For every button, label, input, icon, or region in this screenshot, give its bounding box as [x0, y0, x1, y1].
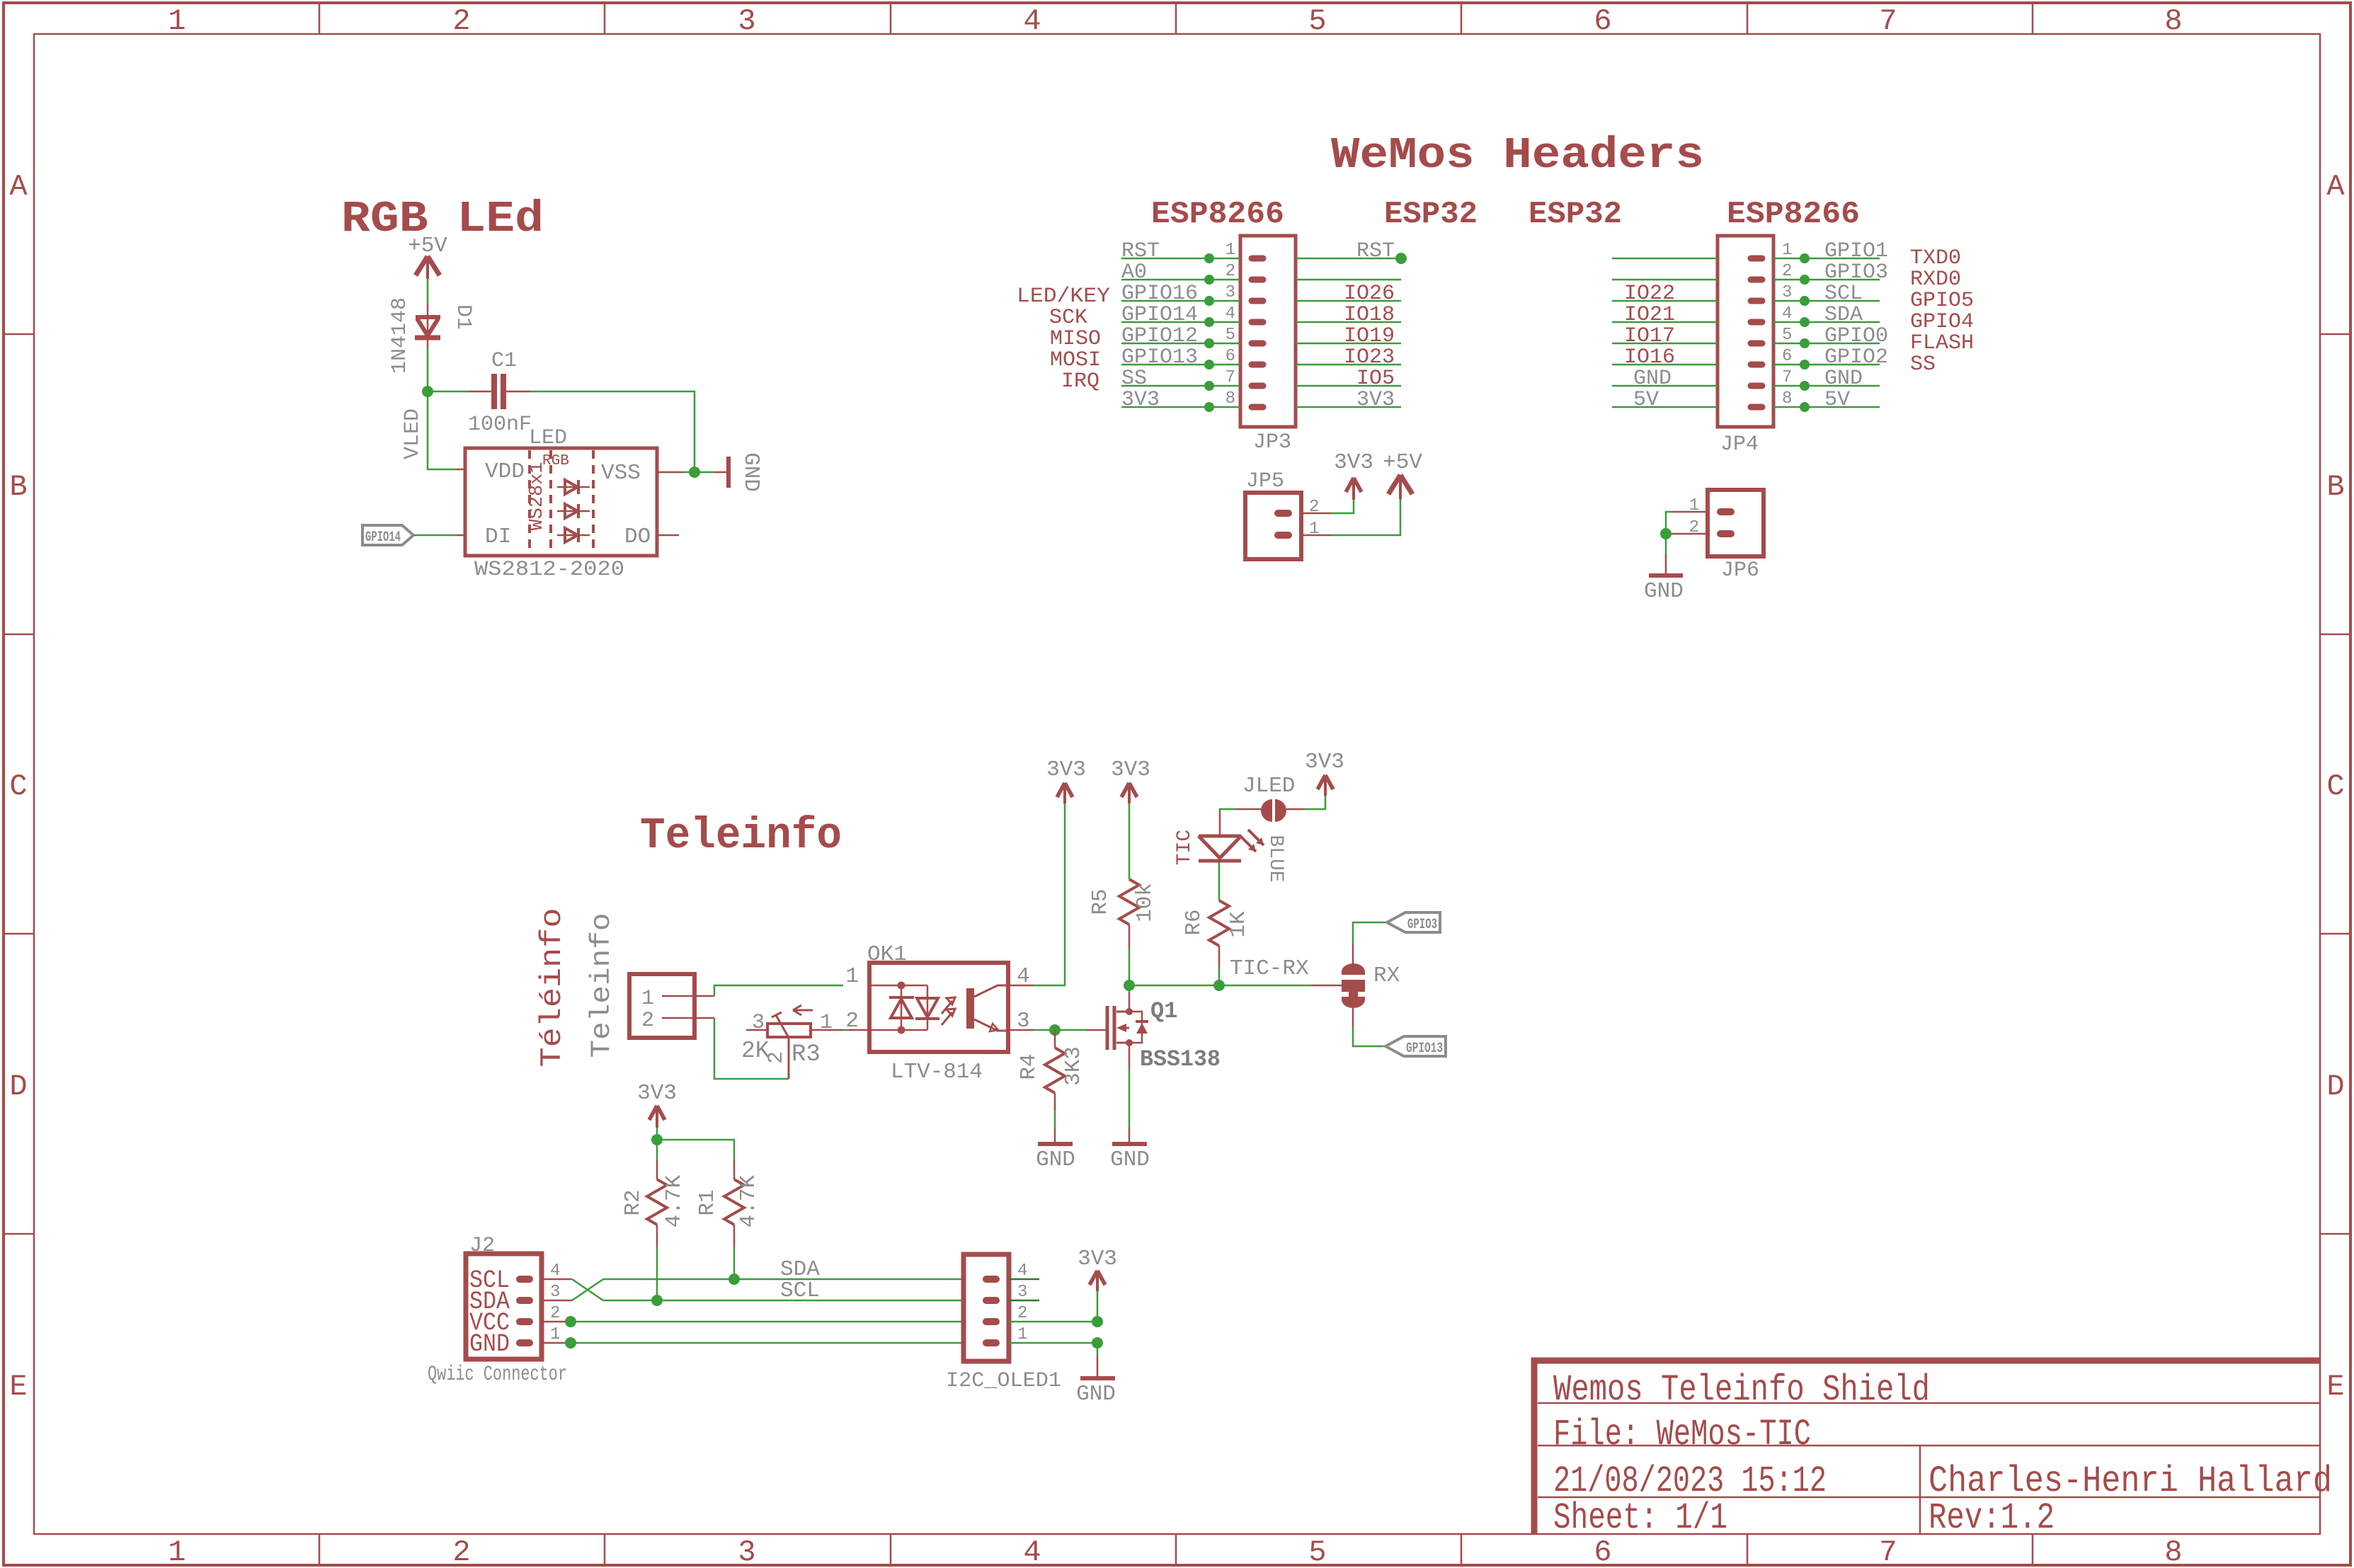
svg-text:LED: LED [529, 426, 567, 450]
OK1 interior dots [898, 982, 905, 990]
svg-text:3V3: 3V3 [1046, 757, 1086, 782]
svg-text:RX: RX [1373, 963, 1400, 988]
svg-text:GND: GND [738, 452, 763, 492]
svg-text:GPIO13: GPIO13 [1121, 345, 1198, 370]
svg-text:WeMos Headers: WeMos Headers [1331, 130, 1704, 181]
column tick marks bottom [319, 1534, 2033, 1565]
tag GPIO14 [362, 525, 413, 546]
supply 3V3 (pullups) [649, 1106, 665, 1128]
supply +5V symbol [416, 256, 440, 279]
svg-text:GPIO2: GPIO2 [1824, 345, 1888, 370]
svg-text:3K3: 3K3 [1061, 1046, 1086, 1086]
transistor Q1 BSS138 [1107, 1006, 1129, 1050]
wire RX to GPIO13 [1352, 1008, 1354, 1027]
connector I2C_OLED1 box [964, 1254, 1009, 1361]
svg-text:3V3: 3V3 [1111, 757, 1150, 782]
svg-text:BSS138: BSS138 [1140, 1046, 1221, 1072]
svg-text:1: 1 [820, 1011, 833, 1035]
pin wire VSS [657, 471, 683, 474]
junction VCC-3V3 [1092, 1316, 1103, 1327]
resistor R2 [647, 1160, 667, 1247]
junction VSS node [689, 467, 700, 478]
svg-text:RXD0: RXD0 [1910, 268, 1961, 292]
svg-text:1: 1 [168, 4, 185, 38]
svg-text:2: 2 [1225, 262, 1235, 281]
internal diode blue [557, 528, 590, 542]
internal diode red [557, 480, 590, 494]
svg-text:JLED: JLED [1242, 774, 1295, 799]
svg-text:GPIO5: GPIO5 [1910, 289, 1974, 313]
svg-text:Q1: Q1 [1150, 998, 1177, 1024]
JP6 pin stubs [1720, 512, 1731, 534]
svg-text:TIC: TIC [1174, 830, 1196, 865]
svg-text:R2: R2 [621, 1189, 646, 1215]
wire R3 to OK1 pin2 [842, 1029, 849, 1031]
svg-text:GND: GND [1824, 367, 1863, 391]
JP5 pin2 wire to 3V3 [1301, 513, 1331, 515]
svg-text:TXD0: TXD0 [1910, 246, 1961, 270]
svg-text:3V3: 3V3 [1334, 450, 1373, 475]
svg-text:OK1: OK1 [867, 942, 907, 967]
capacitor C1 [469, 374, 530, 409]
svg-text:A0: A0 [1121, 261, 1147, 285]
JP3 left function labels [1017, 285, 1110, 394]
svg-text:JP4: JP4 [1720, 433, 1759, 457]
svg-text:GPIO0: GPIO0 [1824, 324, 1888, 348]
svg-text:1: 1 [168, 1535, 185, 1568]
Q1 body diode [1129, 1012, 1142, 1043]
svg-text:JP3: JP3 [1253, 430, 1291, 454]
svg-text:7: 7 [1879, 4, 1897, 38]
svg-text:8: 8 [2164, 1535, 2182, 1568]
supply 3V3 (I2C) [1090, 1271, 1105, 1291]
Teleinfo pin lines [662, 996, 714, 1018]
wire +5V to D1 [427, 279, 429, 304]
ground GND (I2C) [1080, 1356, 1115, 1378]
wire to Q1 gate [1086, 1029, 1106, 1031]
wire VCC to 3V3 [1009, 1321, 1097, 1323]
svg-text:Téléinfo: Téléinfo [535, 908, 569, 1068]
resistor R6 [1209, 900, 1229, 967]
optocoupler OK1 box [869, 963, 1008, 1052]
svg-text:4: 4 [1782, 304, 1792, 324]
dashed dividers inside LED [530, 450, 593, 554]
svg-text:1: 1 [550, 1325, 560, 1344]
svg-text:6: 6 [1782, 347, 1792, 366]
junction pullup node [651, 1134, 663, 1145]
svg-text:GPIO14: GPIO14 [365, 530, 401, 546]
JP4 pin numbers [1782, 241, 1792, 408]
svg-text:3V3: 3V3 [637, 1081, 677, 1106]
jumper RX [1342, 963, 1365, 975]
internal diode green [557, 504, 590, 518]
svg-text:4.7K: 4.7K [736, 1174, 761, 1227]
svg-text:3: 3 [1225, 283, 1235, 302]
svg-text:D1: D1 [451, 304, 475, 330]
svg-text:ESP32: ESP32 [1384, 197, 1478, 232]
svg-text:5: 5 [1308, 4, 1326, 38]
svg-text:R6: R6 [1182, 909, 1206, 935]
svg-text:RST: RST [1356, 239, 1395, 263]
supply 3V3 (R5) [1121, 783, 1137, 803]
svg-text:B: B [2326, 470, 2344, 504]
wire Teleinfo pin2 to R3 wiper [714, 1018, 789, 1079]
svg-text:1: 1 [1017, 1325, 1027, 1344]
resistor R5 [1119, 879, 1139, 949]
connector JP3 [1240, 236, 1296, 427]
junction TIC-RX at R5 [1124, 980, 1135, 991]
tag GPIO3 [1387, 912, 1440, 932]
JP3 left pin dots [1204, 253, 1214, 412]
svg-text:6: 6 [1594, 4, 1611, 38]
svg-text:A: A [2326, 170, 2345, 204]
pin wire DI [457, 534, 466, 537]
svg-text:5: 5 [1225, 326, 1235, 345]
svg-text:Wemos Teleinfo Shield: Wemos Teleinfo Shield [1553, 1369, 1930, 1411]
LED WS2812 box [465, 448, 657, 556]
svg-text:IO17: IO17 [1624, 324, 1675, 348]
pin wire VDD [457, 469, 466, 471]
resistor R4 [1045, 1030, 1065, 1111]
wire to GND [1665, 534, 1667, 554]
svg-text:Qwiic Connector: Qwiic Connector [428, 1363, 567, 1387]
svg-text:Sheet: 1/1: Sheet: 1/1 [1553, 1497, 1727, 1539]
svg-text:SCL: SCL [780, 1278, 820, 1303]
JP4 right net labels [1824, 239, 1888, 412]
svg-text:2: 2 [452, 4, 470, 38]
svg-text:D: D [9, 1070, 27, 1104]
svg-text:SCL: SCL [1824, 282, 1863, 306]
svg-text:VDD: VDD [485, 459, 525, 484]
svg-text:LED/KEY: LED/KEY [1017, 285, 1110, 309]
svg-text:2: 2 [1017, 1304, 1027, 1323]
svg-text:GND: GND [1036, 1148, 1075, 1172]
svg-text:4: 4 [1023, 1535, 1041, 1568]
wire SDA [603, 1278, 964, 1281]
wire GPIO14 to DI [413, 534, 457, 537]
svg-text:1: 1 [1225, 241, 1235, 260]
wire TIC-RX [1129, 985, 1311, 987]
wire up to 3V3 [1097, 1291, 1099, 1322]
Q1 drain wire [1129, 992, 1131, 1012]
svg-text:2: 2 [641, 1009, 654, 1033]
JP5 pin numbers [1309, 498, 1319, 539]
wire 3V3 to junction [656, 1128, 658, 1140]
svg-text:IO16: IO16 [1624, 345, 1675, 370]
svg-text:GND: GND [1076, 1382, 1116, 1407]
svg-text:5V: 5V [1824, 388, 1850, 412]
JP3 left net labels [1121, 239, 1198, 412]
OK1 diode down [915, 998, 939, 1019]
JP3 pin stubs [1252, 258, 1263, 407]
JP5 pin stubs [1278, 513, 1289, 535]
svg-text:BLUE: BLUE [1264, 835, 1286, 882]
R3 pin labels [752, 1011, 833, 1064]
connector JP5 [1245, 493, 1301, 559]
svg-text:IO26: IO26 [1344, 282, 1395, 306]
svg-text:IO19: IO19 [1344, 324, 1395, 348]
svg-text:GPIO3: GPIO3 [1824, 261, 1888, 285]
svg-text:R5: R5 [1088, 888, 1113, 915]
svg-text:5V: 5V [1633, 388, 1659, 412]
wire R2 to SCL [656, 1247, 658, 1300]
jumper JLED [1261, 799, 1272, 822]
wire R4 to GND [1054, 1111, 1056, 1128]
svg-text:4: 4 [1023, 4, 1041, 38]
I2C_OLED1 right stub wires [1009, 1279, 1039, 1300]
ground GND (rotated) [714, 457, 729, 488]
junction R2-SCL [651, 1295, 663, 1306]
Q1 gate arrow head [1116, 1024, 1126, 1032]
svg-text:6: 6 [1594, 1535, 1611, 1568]
wire VCC [571, 1321, 964, 1323]
node RST dot [1395, 253, 1407, 264]
wire junction to R2 [656, 1140, 658, 1160]
JP3 right wires [1296, 258, 1401, 407]
svg-text:I2C_OLED1: I2C_OLED1 [946, 1369, 1061, 1393]
svg-text:7: 7 [1782, 368, 1792, 387]
svg-text:LTV-814: LTV-814 [891, 1060, 983, 1085]
svg-text:2: 2 [452, 1535, 470, 1568]
svg-text:SCK: SCK [1049, 306, 1087, 330]
svg-text:A: A [9, 170, 28, 204]
title block row lines [1538, 1403, 2320, 1534]
LED TIC [1199, 809, 1241, 862]
svg-text:21/08/2023 15:12: 21/08/2023 15:12 [1553, 1460, 1827, 1502]
svg-text:+5V: +5V [408, 234, 447, 258]
wire VLED down to VDD [428, 391, 457, 469]
svg-text:Teleinfo: Teleinfo [586, 913, 617, 1058]
title block thick border [1534, 1361, 2320, 1534]
svg-text:4: 4 [550, 1261, 560, 1281]
connector Teleinfo box [629, 974, 695, 1038]
svg-text:IO22: IO22 [1624, 282, 1675, 306]
svg-text:Teleinfo: Teleinfo [640, 811, 842, 861]
svg-text:D: D [2326, 1070, 2344, 1104]
svg-text:GND: GND [1110, 1148, 1150, 1172]
row tick marks right [2320, 334, 2350, 1234]
JP6 pin wires [1672, 512, 1708, 534]
svg-text:100nF: 100nF [468, 413, 532, 437]
JP4 pin stubs [1751, 258, 1762, 407]
JP4 right wires [1773, 258, 1880, 407]
svg-text:GND: GND [1633, 367, 1672, 391]
wire Teleinfo pin1 to OK1 [714, 985, 843, 996]
svg-text:IO21: IO21 [1624, 303, 1675, 327]
svg-text:4: 4 [1017, 1261, 1027, 1281]
svg-text:8: 8 [2164, 4, 2182, 38]
I2C_OLED1 pin numbers [1017, 1261, 1027, 1344]
I2C_OLED1 pin stubs [986, 1279, 996, 1343]
connector J2 box [466, 1254, 542, 1359]
junction R1-SDA [729, 1274, 740, 1285]
svg-text:3: 3 [738, 1535, 755, 1568]
svg-text:3: 3 [1017, 1283, 1027, 1302]
svg-text:ESP8266: ESP8266 [1727, 197, 1860, 232]
supply +5V (JP5) [1388, 475, 1412, 499]
wire D1 to VLED junction [427, 338, 429, 348]
OK1 diode up [889, 997, 914, 1018]
junction gate node [1049, 1024, 1061, 1036]
wire GND [571, 1342, 964, 1344]
pin wire DO (unconnected) [657, 534, 679, 537]
svg-text:SS: SS [1121, 367, 1147, 391]
svg-text:Charles-Henri Hallard: Charles-Henri Hallard [1929, 1460, 2332, 1502]
JP6 pin numbers [1689, 496, 1699, 537]
svg-text:Rev:1.2: Rev:1.2 [1929, 1497, 2055, 1539]
wire junction to R1 [657, 1140, 734, 1160]
svg-text:ESP8266: ESP8266 [1151, 197, 1284, 232]
svg-text:C: C [2326, 769, 2344, 803]
junction JP6 gnd node [1660, 528, 1672, 539]
junction VCC at J2 [565, 1316, 576, 1327]
svg-text:GPIO12: GPIO12 [1121, 324, 1198, 348]
svg-text:JP6: JP6 [1721, 559, 1759, 583]
svg-text:10k: 10k [1133, 883, 1158, 922]
connector JP4 [1718, 236, 1773, 427]
svg-text:C: C [9, 769, 27, 803]
svg-text:GPIO13: GPIO13 [1406, 1041, 1443, 1057]
svg-text:MOSI: MOSI [1050, 348, 1101, 372]
svg-text:4.7K: 4.7K [662, 1174, 687, 1227]
wire TIC to JLED [1219, 808, 1235, 811]
svg-text:File: WeMos-TIC: File: WeMos-TIC [1553, 1414, 1811, 1455]
JP4 left wires [1612, 258, 1718, 407]
svg-text:3: 3 [752, 1011, 765, 1035]
svg-text:IRQ: IRQ [1061, 370, 1099, 394]
svg-text:3V3: 3V3 [1305, 750, 1344, 774]
JP3 right net labels [1344, 239, 1395, 412]
wire RX to GPIO3 [1352, 943, 1354, 964]
OK1 pin numbers [845, 964, 1029, 1034]
svg-text:MISO: MISO [1050, 327, 1101, 351]
ground GND (JP6) [1649, 554, 1683, 576]
svg-text:R4: R4 [1017, 1053, 1041, 1080]
JP5 pin1 wire to +5V [1301, 534, 1331, 537]
wire GND to gnd [1009, 1342, 1097, 1344]
supply 3V3 (JLED) [1318, 775, 1333, 796]
wire VSS to GND [683, 471, 714, 474]
svg-text:+5V: +5V [1383, 450, 1422, 475]
svg-text:J2: J2 [469, 1234, 495, 1258]
svg-text:4: 4 [1225, 304, 1235, 324]
svg-text:GPIO4: GPIO4 [1910, 310, 1974, 334]
svg-text:7: 7 [1225, 368, 1235, 387]
svg-text:WS28x1: WS28x1 [527, 462, 548, 530]
svg-text:VSS: VSS [601, 461, 641, 486]
J2 pin numbers [550, 1261, 560, 1344]
supply 3V3 (JP5) [1346, 478, 1361, 500]
svg-text:2: 2 [845, 1009, 859, 1034]
svg-text:GPIO16: GPIO16 [1121, 282, 1198, 306]
svg-text:JP5: JP5 [1246, 469, 1284, 493]
svg-text:1N4148: 1N4148 [388, 297, 412, 374]
supply 3V3 (OK1) [1057, 783, 1073, 803]
svg-text:SS: SS [1910, 353, 1936, 377]
svg-text:B: B [9, 470, 27, 504]
svg-text:1: 1 [1782, 241, 1792, 260]
wire R1 to SDA [733, 1247, 736, 1279]
svg-text:1K: 1K [1226, 911, 1251, 938]
connector JP6 [1708, 490, 1764, 556]
wire down to GND [1097, 1343, 1099, 1356]
svg-text:GND: GND [1644, 579, 1684, 604]
svg-text:6: 6 [1225, 347, 1235, 366]
Teleinfo pin numbers [641, 987, 654, 1033]
resistor R1 [724, 1160, 744, 1247]
wire C1 to VSS corner [530, 391, 695, 472]
JP3 pin numbers [1225, 241, 1235, 408]
J2 pin names [469, 1266, 510, 1358]
svg-text:ESP32: ESP32 [1529, 197, 1622, 232]
JP4 right pin dots [1800, 253, 1810, 412]
svg-text:RST: RST [1121, 239, 1160, 263]
trimmer R3 [746, 1005, 842, 1079]
svg-text:FLASH: FLASH [1910, 331, 1974, 355]
svg-text:1: 1 [641, 987, 654, 1011]
ground GND (R4) [1038, 1128, 1073, 1144]
svg-text:3V3: 3V3 [1078, 1247, 1117, 1271]
OK1 pin4 wire to 3V3 [1008, 985, 1034, 987]
svg-text:3: 3 [738, 4, 755, 38]
svg-text:IO18: IO18 [1344, 303, 1395, 327]
svg-text:GND: GND [469, 1330, 510, 1358]
OK1 light arrows [942, 997, 955, 1025]
svg-text:8: 8 [1782, 389, 1792, 408]
wire TIC-RX to RX jumper [1311, 985, 1342, 987]
Q1 source wire to GND [1129, 1043, 1131, 1069]
diode D1 [415, 317, 440, 338]
svg-text:VLED: VLED [401, 408, 425, 459]
svg-text:2: 2 [550, 1304, 560, 1323]
svg-text:3V3: 3V3 [1356, 388, 1395, 412]
wire junction to C1 [428, 391, 469, 393]
OK1 pin3 wire [1008, 1029, 1034, 1031]
junction GND at J2 [565, 1337, 576, 1349]
svg-text:2: 2 [1782, 262, 1792, 281]
svg-text:TIC-RX: TIC-RX [1230, 956, 1309, 981]
JP3 left wires [1121, 258, 1240, 407]
svg-text:GPIO1: GPIO1 [1824, 239, 1888, 263]
JP4 left net labels [1624, 282, 1675, 412]
crossover SCL/SDA [572, 1279, 603, 1300]
OK1 input pin lines [869, 985, 927, 1030]
svg-text:2K: 2K [741, 1038, 770, 1064]
svg-text:1: 1 [845, 964, 859, 989]
svg-text:5: 5 [1308, 1535, 1326, 1568]
row tick marks left [4, 334, 34, 1234]
J2 pin wires [542, 1279, 572, 1343]
svg-text:IO5: IO5 [1356, 367, 1395, 391]
svg-text:R3: R3 [792, 1041, 821, 1068]
svg-text:SDA: SDA [1824, 303, 1863, 327]
svg-text:GPIO14: GPIO14 [1121, 303, 1198, 327]
svg-text:C1: C1 [491, 349, 517, 373]
svg-text:3: 3 [550, 1283, 560, 1302]
JP4 right function labels [1910, 246, 1974, 377]
svg-text:7: 7 [1879, 1535, 1897, 1568]
svg-text:8: 8 [1225, 389, 1235, 408]
svg-text:DI: DI [485, 525, 511, 549]
svg-text:IO23: IO23 [1344, 345, 1395, 370]
svg-text:3V3: 3V3 [1121, 388, 1160, 412]
svg-text:DO: DO [624, 525, 651, 549]
svg-text:3: 3 [1782, 283, 1792, 302]
junction VLED node [422, 386, 433, 397]
tag GPIO13 [1385, 1036, 1446, 1056]
junction GND-gnd [1092, 1337, 1103, 1349]
svg-text:GPIO3: GPIO3 [1407, 917, 1437, 933]
